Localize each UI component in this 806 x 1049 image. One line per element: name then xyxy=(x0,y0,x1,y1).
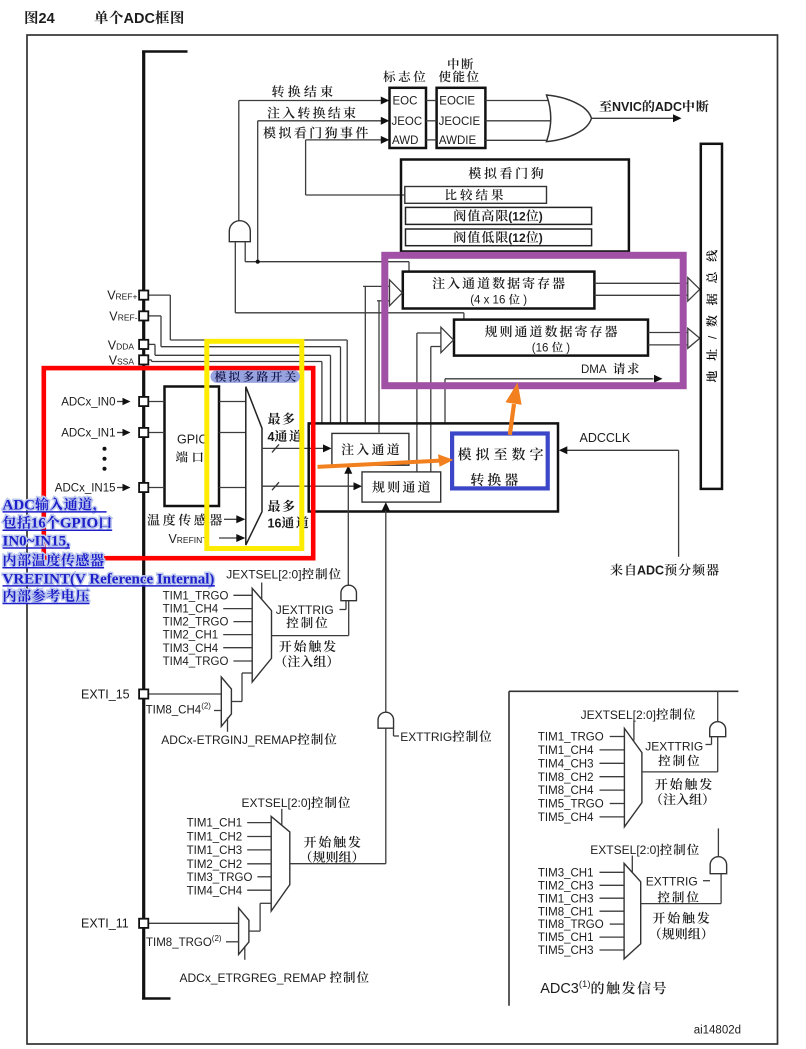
svg-text:): ) xyxy=(520,295,527,307)
ellipsis dot 2 xyxy=(103,457,107,461)
label 来自ADC预分频器 xyxy=(610,564,635,576)
analog mux trapezoid xyxy=(246,387,262,545)
wire injected out upper xyxy=(594,282,688,284)
wire ADC3 reg gate output xyxy=(717,828,719,856)
annotation purple box xyxy=(385,255,683,385)
svg-text:EXTSEL[2:0]: EXTSEL[2:0] xyxy=(590,843,659,857)
wire ADC3 reg mux output xyxy=(641,903,721,905)
or gate to NVIC xyxy=(547,95,592,142)
wire AWDIE to OR xyxy=(485,139,553,141)
wire EOCIE to OR xyxy=(485,100,553,102)
and gate U1 (flag read) xyxy=(229,221,250,242)
annotation orange arrow to purple box xyxy=(510,404,514,435)
svg-text:(16: (16 xyxy=(532,342,552,354)
svg-text:ADCCLK: ADCCLK xyxy=(580,431,631,445)
wire remap elbow v xyxy=(241,673,243,702)
wire TIM2_CH1 xyxy=(223,634,252,636)
svg-text:TIM1_CH4: TIM1_CH4 xyxy=(538,745,594,757)
wire TIM1_CH3 (ADC3 reg) xyxy=(599,897,624,899)
injected data register box xyxy=(403,272,595,309)
ADC3 box top edge xyxy=(509,690,738,692)
wire EXTTRIG output up xyxy=(385,509,387,713)
wire 转换结束 to EOC xyxy=(239,100,382,102)
svg-text:4: 4 xyxy=(268,430,275,444)
label （规则组）(ADC3) xyxy=(657,928,705,940)
label 最多 xyxy=(268,412,295,424)
label 转换器 xyxy=(471,473,518,486)
connector EOC-EOCIE xyxy=(426,100,437,102)
label 模拟看门狗 xyxy=(469,167,544,179)
dash EXTTRIG xyxy=(394,735,400,737)
label 至NVIC的ADC中断 xyxy=(599,100,611,111)
and gate JEXTTRIG (ADC3) xyxy=(710,722,726,737)
wire ADCx_IN0 GPIO to mux xyxy=(219,401,246,403)
svg-text:TIM8_CH4: TIM8_CH4 xyxy=(538,785,594,797)
arrow ADCx_IN15 xyxy=(123,484,131,492)
wire feed regular upper vertical xyxy=(416,333,418,472)
compare box 比较结果 xyxy=(405,187,547,204)
label 模拟看门狗事件 xyxy=(263,126,368,138)
wire remap2 elbow h2 xyxy=(260,902,271,904)
enable box 中断使能位 xyxy=(437,88,486,148)
svg-text:ai14802d: ai14802d xyxy=(694,1025,741,1037)
svg-text:TIM1_CH3: TIM1_CH3 xyxy=(187,845,243,857)
svg-text:GPIO: GPIO xyxy=(177,433,209,447)
box 注入通道 xyxy=(332,433,409,465)
wire remap elbow h1 xyxy=(231,701,242,703)
svg-text:EXTI_15: EXTI_15 xyxy=(81,688,130,702)
wire mux to 注入通道 xyxy=(262,447,323,449)
svg-text:IN0~IN15,: IN0~IN15, xyxy=(3,533,71,549)
wire JEXTTRIG output up xyxy=(347,472,349,601)
svg-text:(2): (2) xyxy=(212,934,222,943)
wire TIM5_TRGO (ADC3 inj) xyxy=(610,803,625,805)
threshold low box xyxy=(406,229,592,246)
arrow into 注入通道 bottom xyxy=(344,465,352,474)
wire TIM1_TRGO (ADC3 inj) xyxy=(610,736,625,738)
wire TIM5_CH4 (ADC3 inj) xyxy=(599,816,624,818)
wire gate U1 right input xyxy=(244,242,246,262)
svg-text:DDA: DDA xyxy=(116,341,134,351)
arrow VREFINT xyxy=(236,534,245,542)
wire VDDA h2 xyxy=(155,354,331,356)
svg-text:ADC: ADC xyxy=(124,11,156,27)
svg-text:TIM1_TRGO: TIM1_TRGO xyxy=(538,732,604,744)
svg-text:TIM2_CH2: TIM2_CH2 xyxy=(187,859,243,871)
wire mux to 规则通道 xyxy=(262,485,354,487)
svg-text:REF-: REF- xyxy=(118,313,138,323)
wire JEOCIE to OR xyxy=(485,120,565,122)
svg-text:ADCx_ETRGREG_REMAP: ADCx_ETRGREG_REMAP xyxy=(180,971,330,985)
svg-text:TIM2_CH1: TIM2_CH1 xyxy=(163,630,219,642)
svg-text:EXTSEL[2:0]: EXTSEL[2:0] xyxy=(242,796,311,810)
wire VDDA down xyxy=(330,355,332,422)
arrow 温度传感器 xyxy=(236,515,245,523)
wire EXTTRIG gate to mux xyxy=(385,728,387,864)
wire TIM2_TRGO xyxy=(233,621,252,623)
mux JEXT trigger xyxy=(252,588,271,682)
svg-text:NVIC: NVIC xyxy=(612,100,642,114)
wire TIM1_CH4 xyxy=(223,608,252,610)
wire to regular register top xyxy=(235,312,464,314)
label 注入通道 xyxy=(342,443,400,455)
svg-text:EXTTRIG: EXTTRIG xyxy=(646,875,698,889)
arrow tail ADCx_IN0 xyxy=(117,401,124,403)
pin EXTI_15 xyxy=(139,689,148,698)
wire regular out lower xyxy=(648,344,689,346)
svg-text:TIM1_CH3: TIM1_CH3 xyxy=(538,893,594,905)
svg-text:TIM2_CH3: TIM2_CH3 xyxy=(538,880,594,892)
label 控制位 (JEXTTRIG) xyxy=(286,617,327,629)
wire TIM8_CH1 (ADC3 reg) xyxy=(599,910,624,912)
title 图24 单个ADC框图 xyxy=(25,11,37,24)
svg-text:DMA: DMA xyxy=(581,364,612,376)
arrow DMA request xyxy=(654,375,663,383)
svg-text:): ) xyxy=(539,209,543,223)
pin ADCx_IN0 xyxy=(139,397,148,406)
wire JEXTSEL select (ADC3) xyxy=(633,721,635,741)
label 标志位 xyxy=(383,71,425,83)
arrow to NVIC xyxy=(673,114,682,122)
arrow tail ADCx_IN15 xyxy=(117,487,124,489)
label 开始触发 (ADC3 规则组) xyxy=(653,912,710,924)
wire JEXT mux output up xyxy=(348,601,350,636)
svg-text:TIM3_CH4: TIM3_CH4 xyxy=(163,643,219,655)
wire TIM8_CH2 (ADC3 inj) xyxy=(599,776,624,778)
wire JEXTSEL select xyxy=(261,583,263,602)
wire VDDA v xyxy=(154,344,156,355)
wire remap2 elbow v xyxy=(259,903,261,931)
slash 16通道 xyxy=(272,482,279,490)
svg-text:TIM8_CH4: TIM8_CH4 xyxy=(146,705,202,717)
wire 注入转换结束 vertical xyxy=(257,121,259,262)
label 注入通道数据寄存器 xyxy=(433,277,565,289)
pin VREF+ xyxy=(139,291,148,300)
label 比较结果 xyxy=(446,189,503,201)
arrow into EOC xyxy=(381,97,390,105)
wire feed injected upper vertical xyxy=(364,286,366,422)
mux ADC3 injected trigger xyxy=(624,728,642,826)
wire ADCCLK vertical xyxy=(678,450,680,557)
svg-text:ADCx-ETRGINJ_REMAP: ADCx-ETRGINJ_REMAP xyxy=(161,733,297,747)
arrow into 注入通道 xyxy=(323,444,332,452)
wire TIM3_CH1 (ADC3 reg) xyxy=(599,871,624,873)
wire 注入转换结束 to JEOC xyxy=(258,120,382,122)
label 模拟至数字 xyxy=(458,447,543,460)
watchdog box 模拟看门狗 xyxy=(401,160,629,252)
wire ADC3 inj to gate xyxy=(717,737,719,772)
mux EXT trigger xyxy=(271,816,290,911)
wire feed regular lower vertical xyxy=(430,347,432,472)
svg-text:(4 x 16: (4 x 16 xyxy=(470,295,508,307)
wire VSSA down xyxy=(321,362,323,423)
wire to injected register top xyxy=(245,261,409,263)
wire TIM5_CH1 (ADC3 reg) xyxy=(599,936,624,938)
wire VREF+ h1 xyxy=(148,294,170,296)
wire TIM1_TRGO xyxy=(233,594,252,596)
svg-text:24: 24 xyxy=(39,11,55,27)
wire ADCx_IN1 GPIO to mux xyxy=(219,432,246,434)
wire feed regular lower xyxy=(431,346,441,348)
arrow into AWD xyxy=(381,136,390,144)
open arrow into regular register xyxy=(441,327,454,353)
slash 4通道 xyxy=(272,444,279,452)
mux ETRGINJ remap xyxy=(221,677,231,726)
annotation red box xyxy=(44,368,313,558)
mux ADC3 regular trigger xyxy=(624,863,641,959)
label （规则组） xyxy=(308,851,356,863)
svg-text:/: / xyxy=(705,335,719,339)
svg-text:EXTI_11: EXTI_11 xyxy=(81,917,129,931)
svg-text:TIM8_TRGO: TIM8_TRGO xyxy=(146,937,212,949)
wire TIM4_CH4 xyxy=(247,889,271,891)
wire EXTI_15 xyxy=(148,693,221,695)
wire VREF+ down xyxy=(346,340,348,423)
svg-text:SSA: SSA xyxy=(117,357,134,367)
wire VREF- h1 xyxy=(148,315,161,317)
ADC3 box left edge xyxy=(508,691,510,1006)
wire TIM1_CH1 xyxy=(247,822,271,824)
svg-text:TIM3_TRGO: TIM3_TRGO xyxy=(187,872,253,884)
svg-text:): ) xyxy=(539,231,543,245)
wire VREFINT to mux xyxy=(219,537,238,539)
arrow tail ADCx_IN1 xyxy=(117,432,124,434)
svg-text:GPIO: GPIO xyxy=(60,516,98,532)
label 控制位 (ADC3 JEXTTRIG) xyxy=(658,755,699,767)
svg-text:16: 16 xyxy=(268,516,282,530)
wire ADCx_IN1 pin to GPIO xyxy=(148,432,164,434)
svg-text:TIM8_CH2: TIM8_CH2 xyxy=(538,772,594,784)
wire 温度传感器 to mux xyxy=(224,518,238,520)
arrow into 规则通道 xyxy=(354,482,363,490)
wire VSSA h1 xyxy=(148,359,151,361)
svg-text:TIM2_TRGO: TIM2_TRGO xyxy=(163,617,229,629)
pin ADCx_IN15 xyxy=(139,483,148,492)
svg-text:REF+: REF+ xyxy=(116,292,138,302)
wire ADCCLK xyxy=(566,449,679,451)
wire VDDA h1 xyxy=(148,343,155,345)
svg-text:ADC: ADC xyxy=(3,497,36,513)
ADC block box xyxy=(309,423,558,511)
svg-text:(2): (2) xyxy=(201,702,211,711)
svg-text:VREFINT(V Reference Internal): VREFINT(V Reference Internal) xyxy=(3,571,215,587)
wire ETRGREG remap control xyxy=(244,946,246,960)
svg-text:TIM5_TRGO: TIM5_TRGO xyxy=(538,799,604,811)
svg-text:ADC3: ADC3 xyxy=(540,981,579,997)
annotation blue box xyxy=(452,434,548,489)
svg-text:TIM5_CH3: TIM5_CH3 xyxy=(538,945,594,957)
wire VREF+ h2 xyxy=(170,339,347,341)
wire DMA request xyxy=(445,378,654,380)
wire into 注入通道数据寄存器 top xyxy=(408,262,410,272)
thick vertical line xyxy=(142,51,145,1000)
svg-text:(1): (1) xyxy=(579,979,591,990)
label 注入转换结束 xyxy=(267,106,355,118)
wire TIM4_TRGO xyxy=(233,660,252,662)
svg-text:JEXTTRIG: JEXTTRIG xyxy=(645,740,703,754)
bus box 地址/数据总线 xyxy=(701,144,722,489)
ellipsis dot 3 xyxy=(103,467,107,471)
label 最多(2) xyxy=(268,500,295,512)
pin ADCx_IN1 xyxy=(139,428,148,437)
arrow into 规则通道 bottom xyxy=(382,502,390,511)
svg-text:EOC: EOC xyxy=(393,96,418,108)
svg-text:TIM3_CH1: TIM3_CH1 xyxy=(538,867,594,879)
wire VREF- h2 xyxy=(161,346,341,348)
label 中断 xyxy=(448,58,473,70)
mux ETRGREG remap xyxy=(239,908,249,955)
wire VREF+ v xyxy=(169,295,171,340)
junction JEOC/inj-top xyxy=(256,260,260,264)
wire VSSA v xyxy=(151,360,153,362)
connector JEOC-JEOCIE xyxy=(426,120,437,122)
wire ADCx_IN15 GPIO to mux xyxy=(219,487,246,489)
flag box 标志位 xyxy=(390,88,427,148)
wire EXT mux output xyxy=(290,863,386,865)
label 开始触发 (注入组) xyxy=(279,640,336,652)
wire VREF- down xyxy=(340,347,342,423)
wire DMA vertical xyxy=(444,379,446,423)
wire TIM1_CH2 xyxy=(247,836,271,838)
GPIO box xyxy=(165,387,220,507)
wire feed regular upper xyxy=(417,332,441,334)
label 规则通道数据寄存器 xyxy=(485,325,617,337)
svg-text:JEXTSEL[2:0]: JEXTSEL[2:0] xyxy=(581,708,656,722)
svg-text:JEXTSEL[2:0]: JEXTSEL[2:0] xyxy=(226,568,301,582)
wire TIM2_CH2 xyxy=(247,863,271,865)
dash JEXTTRIG xyxy=(340,609,347,611)
wire remap elbow h2 xyxy=(242,672,252,674)
label 阀值高限(12位) xyxy=(454,209,508,221)
pin EXTI_11 xyxy=(139,919,148,928)
wire TIM1_CH3 xyxy=(247,849,271,851)
svg-text:TIM1_CH1: TIM1_CH1 xyxy=(187,818,243,830)
wire TIM8_CH4 xyxy=(214,710,222,712)
arrow ADCx_IN0 xyxy=(123,398,131,406)
wire EXTSEL select (ADC3) xyxy=(631,856,633,876)
arrow ADCCLK xyxy=(559,446,568,454)
wire ADCx_IN15 pin to GPIO xyxy=(148,487,164,489)
wire AWD vertical xyxy=(305,140,307,195)
label 阀值低限(12位) xyxy=(454,231,508,243)
label （注入组） xyxy=(283,655,331,667)
wire compare result to AWD xyxy=(306,194,405,196)
label 温度传感器 xyxy=(147,514,222,526)
pin VSSA xyxy=(139,355,148,364)
svg-text:): ) xyxy=(563,342,570,354)
label 开始触发 (ADC3 注入组) xyxy=(655,778,712,790)
box 规则通道 xyxy=(362,472,441,502)
annotation orange arrow to converter xyxy=(318,461,441,467)
svg-text:TIM8_CH1: TIM8_CH1 xyxy=(538,906,594,918)
threshold high box xyxy=(406,207,592,224)
wire 模拟看门狗事件 to AWD xyxy=(306,139,382,141)
regular data register box xyxy=(454,320,648,356)
label 转换结束 xyxy=(272,85,333,97)
svg-text:16: 16 xyxy=(31,516,47,532)
wire TIM2_CH3 (ADC3 reg) xyxy=(599,884,624,886)
wire into 规则通道数据寄存器 top xyxy=(463,313,465,320)
svg-text:EXTTRIG: EXTTRIG xyxy=(400,730,452,744)
wire TIM8_TRGO (ADC3 reg) xyxy=(610,923,624,925)
open arrow regular to bus xyxy=(688,328,700,348)
svg-text:TIM4_CH4: TIM4_CH4 xyxy=(187,885,243,897)
wire ADC3 inj gate output xyxy=(717,691,719,721)
thick line bottom foot xyxy=(142,997,170,1000)
wire EXTSEL select xyxy=(281,809,283,826)
svg-text:JEOC: JEOC xyxy=(392,116,423,128)
wire VSSA h2 xyxy=(152,361,322,363)
pin VREF- xyxy=(139,311,148,320)
and gate EXTTRIG xyxy=(378,712,394,728)
wire feed injected upper xyxy=(363,285,390,287)
svg-text:ADC: ADC xyxy=(637,564,664,578)
wire gate U1 left input xyxy=(234,242,236,313)
wire 转换结束 vertical xyxy=(238,101,240,222)
open arrow into injected register xyxy=(390,280,403,306)
svg-text:EOCIE: EOCIE xyxy=(439,96,475,108)
wire TIM8_CH4 (ADC3 inj) xyxy=(599,789,624,791)
and gate JEXTTRIG xyxy=(341,585,357,601)
svg-text:(12: (12 xyxy=(508,231,526,245)
svg-text:AWDIE: AWDIE xyxy=(439,135,477,147)
thick line top corner xyxy=(142,50,187,53)
svg-text:AWD: AWD xyxy=(392,135,418,147)
note line6 内部参考电压 xyxy=(4,589,89,602)
label （注入组）(ADC3) xyxy=(658,793,706,805)
wire TIM3_CH4 xyxy=(223,647,252,649)
wire TIM8_TRGO xyxy=(226,941,239,943)
svg-text:ADCx_IN1: ADCx_IN1 xyxy=(61,428,115,440)
wire VREF- v xyxy=(160,316,162,347)
label 模拟多路开关 xyxy=(215,371,296,382)
connector AWD-AWDIE xyxy=(426,139,437,141)
arrow ADCx_IN1 xyxy=(123,429,131,437)
svg-text:TIM1_CH2: TIM1_CH2 xyxy=(187,832,243,844)
dash EXTTRIG (ADC3) xyxy=(703,880,710,882)
wire feed injected lower xyxy=(377,300,390,302)
annotation lavender pill xyxy=(211,370,301,383)
pin VDDA xyxy=(139,340,148,349)
svg-text:JEOCIE: JEOCIE xyxy=(439,116,481,128)
wire ADC3 reg to gate xyxy=(720,874,722,904)
wire TIM1_CH4 (ADC3 inj) xyxy=(599,749,624,751)
wire OR output xyxy=(592,117,674,119)
label 端口 xyxy=(176,451,203,463)
label 地址/数据总线 rotated xyxy=(705,250,719,382)
wire TIM4_CH3 (ADC3 inj) xyxy=(599,762,624,764)
wire TIM5_CH3 (ADC3 reg) xyxy=(599,949,624,951)
svg-text:TIM1_CH4: TIM1_CH4 xyxy=(163,604,219,616)
wire feed injected lower vertical xyxy=(378,301,380,433)
svg-text:ADCx_IN15: ADCx_IN15 xyxy=(55,483,116,495)
svg-text:REFINT: REFINT xyxy=(177,535,208,545)
and gate EXTTRIG (ADC3) xyxy=(710,857,727,874)
svg-text:TIM8_TRGO: TIM8_TRGO xyxy=(538,919,604,931)
wire remap2 elbow h1 xyxy=(249,930,260,932)
note line4 内部温度传感器 xyxy=(4,553,104,566)
svg-text:TIM1_TRGO: TIM1_TRGO xyxy=(163,590,229,602)
label 规则通道 xyxy=(372,481,430,493)
svg-text:ADC: ADC xyxy=(655,100,682,114)
wire JEXT mux output xyxy=(272,635,349,637)
svg-text:TIM5_CH4: TIM5_CH4 xyxy=(538,812,594,824)
wire injected out lower xyxy=(594,294,688,296)
label 使能位 xyxy=(439,71,479,83)
svg-text:TIM4_CH3: TIM4_CH3 xyxy=(538,758,594,770)
dash JEXTTRIG (ADC3) xyxy=(706,744,712,746)
wire TIM3_TRGO xyxy=(257,876,271,878)
